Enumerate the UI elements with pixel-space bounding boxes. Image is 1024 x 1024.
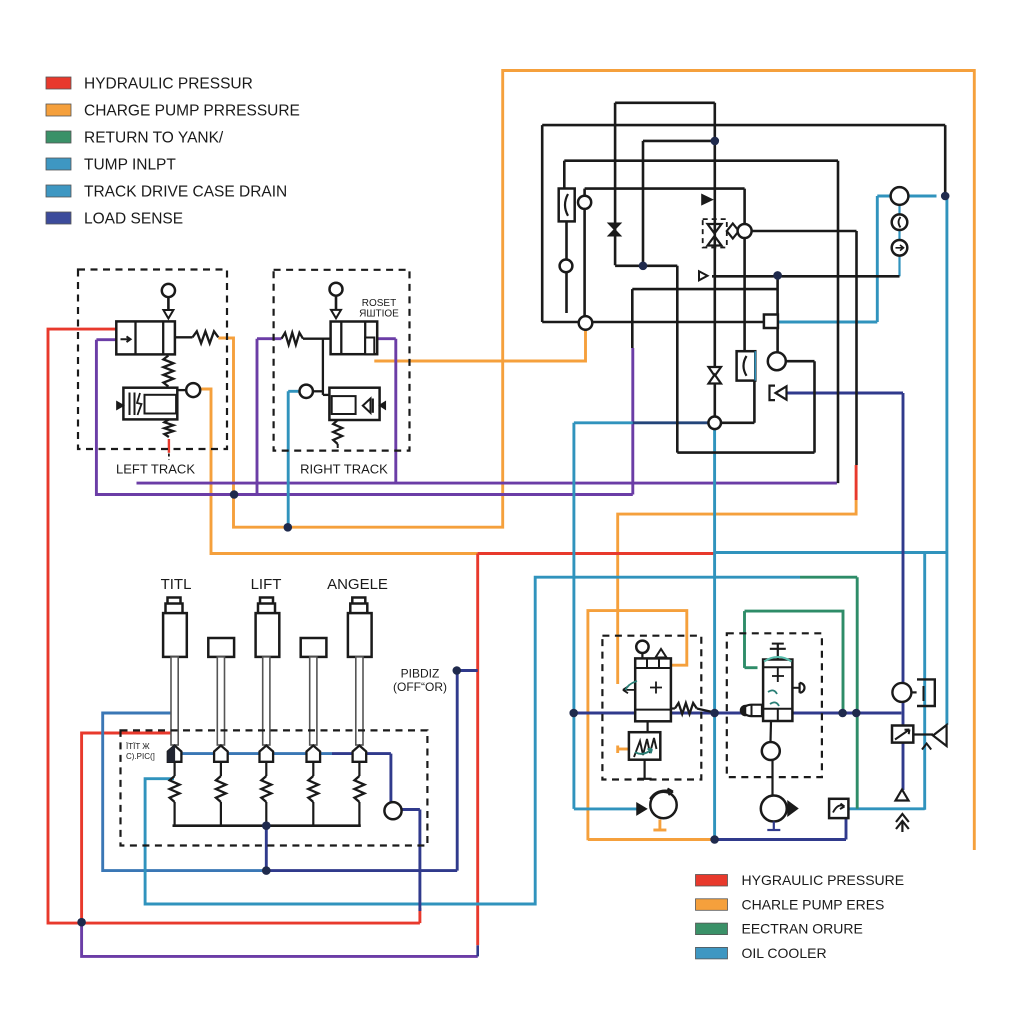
svg-text:LOAD SENSE: LOAD SENSE — [84, 211, 183, 228]
svg-text:ROSET: ROSET — [362, 298, 396, 309]
svg-text:(OFF“OR): (OFF“OR) — [393, 680, 447, 694]
svg-text:TUMP INLPT: TUMP INLPT — [84, 157, 176, 174]
svg-text:C).PIC(]: C).PIC(] — [126, 752, 155, 761]
svg-text:LEFT TRACK: LEFT TRACK — [116, 462, 195, 477]
svg-text:ЇTЇT Ж: ЇTЇT Ж — [126, 742, 150, 751]
svg-text:OIL COOLER: OIL COOLER — [742, 945, 827, 961]
svg-text:CHARGE PUMP PRRESSURE: CHARGE PUMP PRRESSURE — [84, 103, 300, 120]
svg-text:TITL: TITL — [161, 576, 192, 593]
svg-text:TRACK DRIVE CASE DRAIN: TRACK DRIVE CASE DRAIN — [84, 184, 287, 201]
svg-text:CHARLE PUMP ERES: CHARLE PUMP ERES — [742, 896, 885, 912]
svg-text:ЯШTIOE: ЯШTIOE — [359, 309, 399, 320]
svg-text:EECTRAN ORURE: EECTRAN ORURE — [742, 921, 863, 937]
svg-text:RIGHT TRACK: RIGHT TRACK — [300, 462, 388, 477]
svg-text:RETURN TO YANK/: RETURN TO YANK/ — [84, 130, 224, 147]
svg-text:HYDRAULIC PRESSUR: HYDRAULIC PRESSUR — [84, 76, 253, 93]
svg-text:HYGRAULIC PRESSURE: HYGRAULIC PRESSURE — [742, 872, 905, 888]
svg-text:PIBDIZ: PIBDIZ — [401, 667, 440, 681]
svg-text:ANGELE: ANGELE — [327, 576, 388, 593]
svg-text:LIFT: LIFT — [251, 576, 282, 593]
